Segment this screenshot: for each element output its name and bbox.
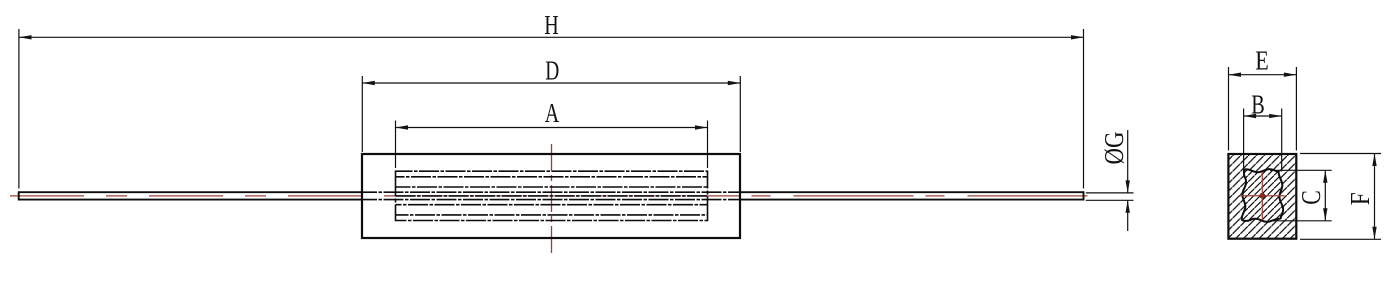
dimension B (core width) [1244,109,1282,172]
section view: hatched body cross-section [1228,154,1296,239]
svg-text:C: C [1296,190,1326,205]
winding / core region (dash-dot) [396,171,708,222]
section view: red center mark [1240,172,1285,220]
section view: inner core break-out (wavy outline, hatched) [1242,169,1283,222]
dimension H (overall length) [19,29,1084,189]
wire: hidden lines through body (dash-dot) [363,192,739,199]
svg-text:H: H [544,10,559,40]
section view: body outline [1228,154,1296,239]
component body (outer case) [362,154,740,238]
dimension F (section height) [1300,154,1381,240]
svg-text:ØG: ØG [1099,132,1129,165]
svg-text:B: B [1251,90,1265,120]
svg-text:E: E [1255,46,1269,76]
svg-text:F: F [1345,192,1375,205]
center line: body vertical (red dash-dot) [551,144,553,257]
dimension C (core height) [1270,170,1332,221]
winding layer lines [396,176,708,178]
wire: right lead [740,191,1084,200]
svg-text:A: A [545,98,560,128]
dimension E (section width) [1229,67,1297,151]
dimension D (body length) [362,76,740,152]
center line: component axis (red dash-dot) [10,195,396,197]
dimension ØG (lead wire diameter) [1086,130,1134,231]
wire: left lead [19,191,362,200]
svg-text:D: D [545,56,559,86]
dimension A (winding length) [396,121,708,169]
